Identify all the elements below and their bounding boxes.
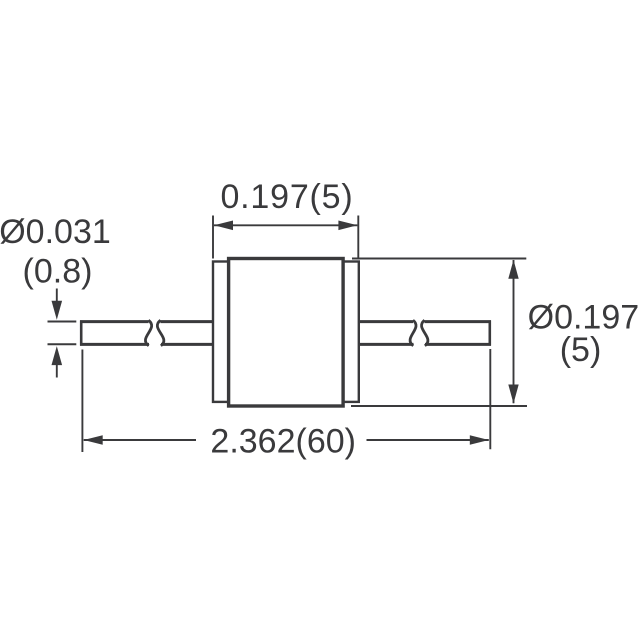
right dimension bottom arrowhead [508,385,518,404]
bottom dimension extension line (left) [81,350,83,453]
svg-text:0.197(5): 0.197(5) [220,178,353,216]
top dimension left arrowhead [214,221,233,231]
svg-text:(0.8): (0.8) [23,253,93,291]
lead diameter up arrow stem [56,364,58,378]
bottom dimension left arrowhead [84,435,103,445]
lead diameter up arrowhead [52,346,63,365]
right lead (wire) [357,320,491,345]
bottom dimension extension line (right) [489,349,491,449]
left lead (wire) [80,320,214,345]
right dimension top arrowhead [508,260,518,279]
lead diameter down arrow stem [56,289,58,304]
left lead break squiggle (left) [145,320,151,346]
top dimension line [214,224,357,226]
right end cap [342,262,359,402]
top dimension extension line (right) [357,216,359,260]
right dimension line [513,260,515,403]
lead diameter tick (top) [48,321,77,323]
package body [229,259,344,407]
lead diameter down arrowhead [52,301,63,320]
lead diameter tick (bottom) [48,343,77,345]
svg-text:2.362(60): 2.362(60) [210,423,356,461]
bottom dimension line (right segment) [367,439,489,441]
right dimension extension line (top) [352,258,526,260]
svg-text:(5): (5) [560,331,602,369]
bottom dimension right arrowhead [470,435,489,445]
svg-text:Ø0.031: Ø0.031 [0,213,111,251]
bottom dimension line (left segment) [84,439,196,441]
right lead break squiggle (left) [410,320,416,346]
left end cap [213,262,229,402]
right lead break squiggle (right) [422,320,428,346]
right dimension extension line (bottom) [351,405,527,407]
top dimension extension line (left) [212,216,214,259]
top dimension right arrowhead [338,221,357,231]
left lead break squiggle (right) [157,320,164,346]
